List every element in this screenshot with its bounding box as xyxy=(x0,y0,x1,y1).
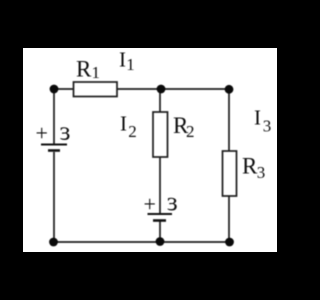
svg-text:R: R xyxy=(76,57,92,82)
svg-text:1: 1 xyxy=(126,55,135,74)
svg-text:2: 2 xyxy=(186,122,195,141)
svg-text:3: 3 xyxy=(257,163,266,182)
svg-text:I: I xyxy=(120,112,127,136)
svg-text:+: + xyxy=(36,121,48,146)
svg-text:2: 2 xyxy=(128,122,137,141)
svg-text:I: I xyxy=(119,48,126,72)
svg-text:I: I xyxy=(254,106,261,130)
svg-text:R: R xyxy=(242,153,258,178)
svg-text:ε: ε xyxy=(167,187,178,216)
svg-text:ε: ε xyxy=(60,117,71,146)
svg-text:3: 3 xyxy=(263,117,272,136)
svg-text:+: + xyxy=(144,192,156,217)
svg-text:1: 1 xyxy=(92,63,101,82)
